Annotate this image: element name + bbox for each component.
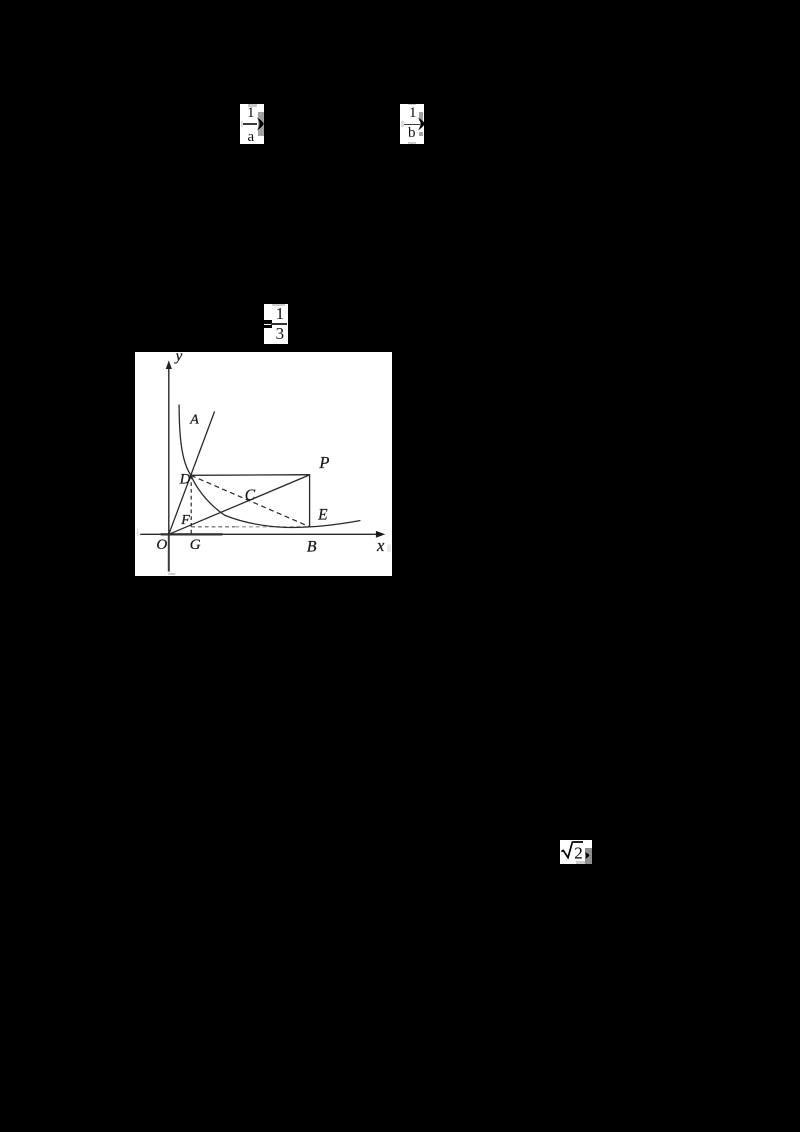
svg-text:O: O: [156, 537, 167, 553]
svg-text:D: D: [179, 471, 191, 487]
svg-text:B: B: [307, 538, 317, 555]
svg-text:G: G: [190, 536, 201, 552]
svg-text:P: P: [318, 452, 329, 471]
svg-text:y: y: [174, 352, 183, 365]
svg-text:C: C: [245, 486, 256, 503]
svg-text:2: 2: [574, 843, 583, 862]
svg-text:x: x: [376, 535, 385, 554]
svg-text:F: F: [180, 512, 190, 527]
svg-text:E: E: [317, 506, 328, 523]
svg-text:A: A: [189, 412, 199, 427]
